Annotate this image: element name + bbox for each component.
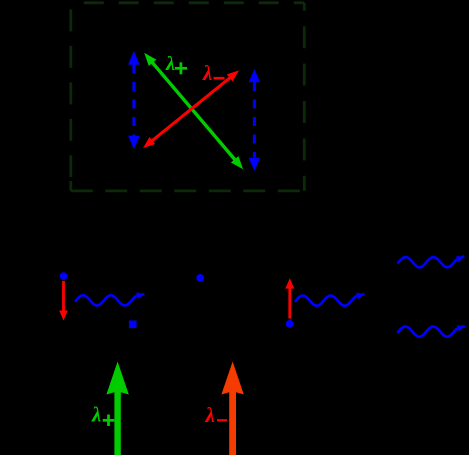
svg-text:λ: λ xyxy=(202,61,212,85)
label lambda+ (green, top) xyxy=(165,53,187,75)
label lambda- (red, top) xyxy=(202,61,225,85)
svg-text:λ: λ xyxy=(91,403,101,427)
atom dot right xyxy=(286,320,294,328)
atom dot left xyxy=(60,272,68,280)
photon wavy arrow top-right xyxy=(398,256,465,267)
photon wavy arrow bottom-right xyxy=(397,326,465,337)
red diagonal double arrow lambda- transition xyxy=(143,70,239,148)
photon wavy arrow middle-left xyxy=(75,294,145,305)
left blue dashed double arrow xyxy=(128,51,140,149)
dashed selection box xyxy=(71,3,304,191)
big orange laser beam arrow lambda- xyxy=(221,362,243,455)
photon wavy arrow middle-right xyxy=(295,294,365,306)
label lambda- (red, bottom) xyxy=(205,403,228,427)
green diagonal double arrow lambda+ transition xyxy=(144,53,243,169)
svg-text:λ: λ xyxy=(205,403,215,427)
red up arrow right xyxy=(285,278,294,318)
red down arrow left xyxy=(59,281,68,321)
svg-text:λ: λ xyxy=(165,53,175,75)
blue square marker xyxy=(129,321,137,329)
atom dot center xyxy=(196,274,204,282)
label lambda+ (green, bottom) xyxy=(91,403,114,427)
right blue dashed double arrow xyxy=(249,69,261,171)
big green laser beam arrow lambda+ xyxy=(106,362,128,455)
